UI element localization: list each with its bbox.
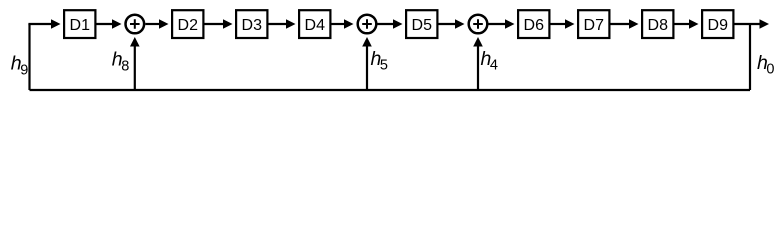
register D1 — [64, 10, 95, 38]
wire D3 to D4 — [269, 23, 288, 25]
wire right vertical — [749, 24, 751, 90]
svg-text:D2: D2 — [178, 17, 199, 34]
wire D1 to XOR1 — [97, 23, 114, 25]
wire feedback left vertical — [28, 24, 30, 90]
svg-text:D9: D9 — [708, 17, 729, 34]
register D6 — [518, 10, 549, 38]
wire XOR2 to D5 — [378, 23, 395, 25]
svg-text:D5: D5 — [412, 17, 433, 34]
svg-text:5: 5 — [380, 58, 388, 74]
svg-text:D7: D7 — [584, 17, 605, 34]
wire tap h8 vertical — [134, 45, 136, 90]
wire tap h4 vertical — [477, 45, 479, 90]
wire D7 to D8 — [611, 23, 631, 25]
wire D9 to output — [735, 23, 761, 25]
adder XOR1 — [126, 15, 145, 34]
svg-text:0: 0 — [766, 62, 774, 78]
svg-text:8: 8 — [121, 58, 129, 74]
wire into D1 — [28, 23, 53, 25]
svg-text:9: 9 — [20, 62, 28, 78]
wire D6 to D7 — [551, 23, 567, 25]
register D7 — [578, 10, 609, 38]
register D8 — [642, 10, 673, 38]
wire tap h5 vertical — [366, 45, 368, 90]
register D9 — [702, 10, 733, 38]
register D3 — [236, 10, 267, 38]
svg-text:D8: D8 — [648, 17, 669, 34]
wire XOR1 to D2 — [145, 23, 160, 25]
wire D4 to XOR2 — [332, 23, 346, 25]
svg-text:D3: D3 — [242, 17, 263, 34]
wire XOR3 to D6 — [489, 23, 507, 25]
wire D2 to D3 — [205, 23, 225, 25]
register D4 — [299, 10, 330, 38]
wire bottom feedback — [30, 89, 751, 91]
adder XOR2 — [358, 15, 377, 34]
register D5 — [406, 10, 437, 38]
wire D5 to XOR3 — [439, 23, 457, 25]
wire D8 to D9 — [675, 23, 691, 25]
register D2 — [172, 10, 203, 38]
svg-text:D1: D1 — [70, 17, 91, 34]
adder XOR3 — [469, 15, 488, 34]
svg-text:D4: D4 — [305, 17, 326, 34]
svg-text:D6: D6 — [524, 17, 545, 34]
svg-text:4: 4 — [490, 58, 498, 74]
